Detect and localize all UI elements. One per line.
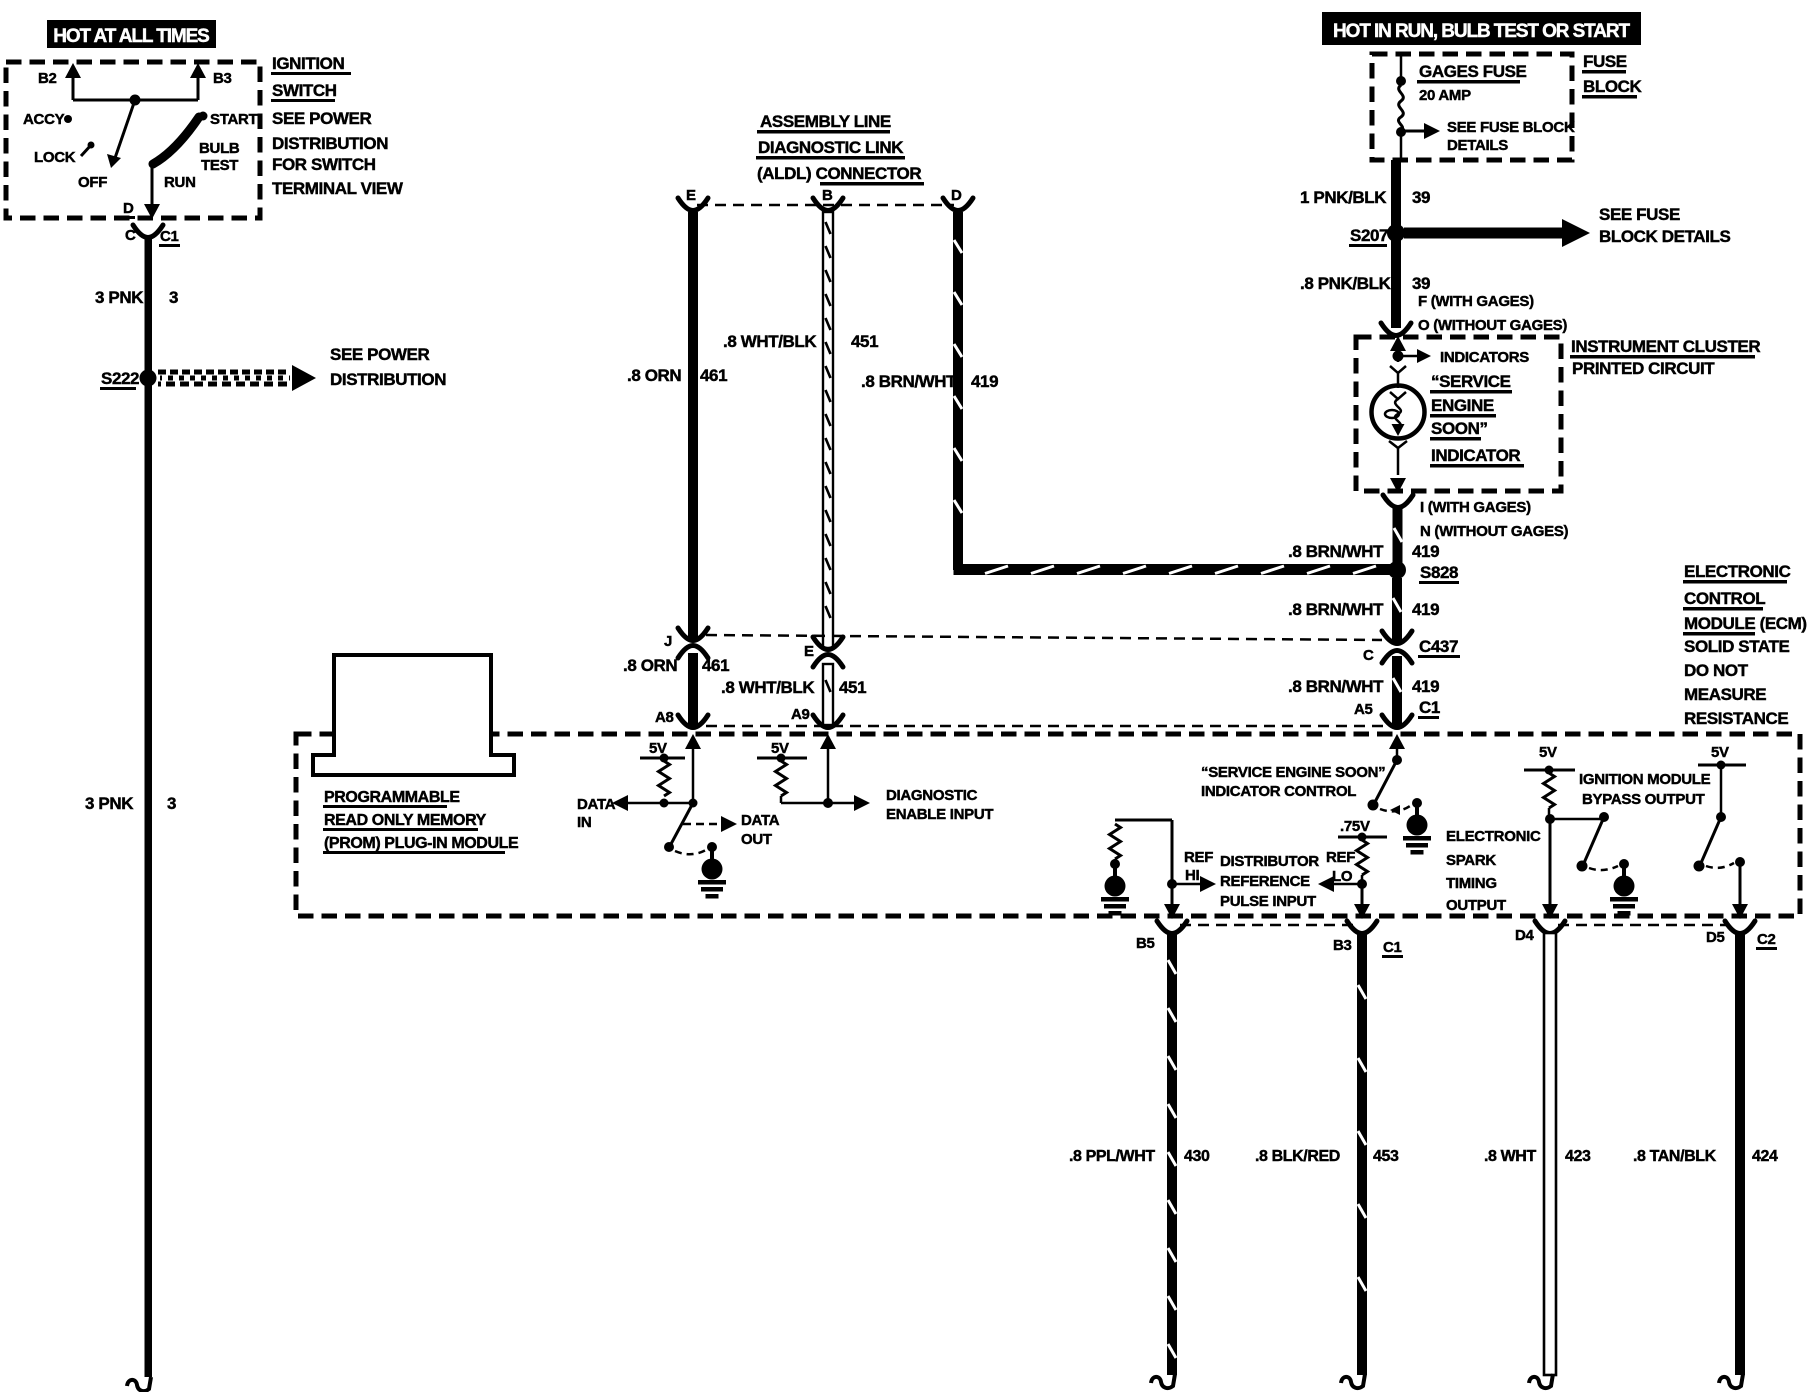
svg-text:S207: S207 xyxy=(1350,226,1388,245)
svg-text:MODULE (ECM): MODULE (ECM) xyxy=(1684,614,1807,633)
svg-text:PROGRAMMABLE: PROGRAMMABLE xyxy=(324,789,460,806)
svg-text:GAGES FUSE: GAGES FUSE xyxy=(1419,62,1527,81)
ECM annotation xyxy=(1683,562,1807,728)
resistor diagnostic pull-up xyxy=(776,761,787,796)
svg-text:5V: 5V xyxy=(1539,744,1557,761)
PROM module xyxy=(313,655,519,854)
svg-text:C1: C1 xyxy=(1383,939,1402,956)
svg-text:A9: A9 xyxy=(791,706,810,723)
wire .8 WHT/BLK 451 lower xyxy=(721,664,866,725)
splice S207 xyxy=(1349,205,1730,247)
svg-text:J: J xyxy=(664,633,672,650)
svg-text:PRINTED CIRCUIT: PRINTED CIRCUIT xyxy=(1572,359,1715,378)
5V supply (EST D4) xyxy=(1524,744,1575,775)
5V supply (bypass D5) xyxy=(1698,744,1746,770)
svg-text:1 PNK/BLK: 1 PNK/BLK xyxy=(1300,188,1387,207)
svg-text:419: 419 xyxy=(1412,677,1439,696)
svg-text:READ ONLY MEMORY: READ ONLY MEMORY xyxy=(324,812,487,829)
EST label xyxy=(1446,828,1541,914)
svg-text:.8 BRN/WHT: .8 BRN/WHT xyxy=(1288,600,1384,619)
svg-text:C437: C437 xyxy=(1419,637,1458,656)
svg-text:A8: A8 xyxy=(655,709,674,726)
wire .8 BRN/WHT 419 mid xyxy=(1288,578,1439,644)
connector E (C437) xyxy=(804,637,843,667)
svg-text:451: 451 xyxy=(839,678,866,697)
svg-text:ELECTRONIC: ELECTRONIC xyxy=(1684,562,1791,581)
fuse GAGES 20A xyxy=(1396,56,1406,160)
bypass switch xyxy=(1694,765,1746,872)
svg-text:.8 WHT: .8 WHT xyxy=(1484,1148,1536,1165)
svg-text:.75V: .75V xyxy=(1340,818,1370,835)
svg-text:453: 453 xyxy=(1373,1148,1399,1165)
svg-text:SOLID STATE: SOLID STATE xyxy=(1684,637,1790,656)
svg-text:OUT: OUT xyxy=(741,831,772,848)
svg-text:HI: HI xyxy=(1185,867,1200,884)
svg-text:20 AMP: 20 AMP xyxy=(1419,87,1471,104)
5V supply (diagnostic) xyxy=(757,740,807,763)
svg-text:INDICATORS: INDICATORS xyxy=(1440,349,1529,366)
svg-text:F (WITH GAGES): F (WITH GAGES) xyxy=(1418,293,1534,310)
svg-text:DETAILS: DETAILS xyxy=(1447,137,1508,154)
svg-text:OUTPUT: OUTPUT xyxy=(1446,897,1506,914)
svg-text:(PROM) PLUG-IN MODULE: (PROM) PLUG-IN MODULE xyxy=(324,835,519,852)
terminal B3 C1 xyxy=(1333,921,1403,958)
wire .8 PPL/WHT 430 xyxy=(1069,933,1210,1388)
ignition module bypass label xyxy=(1579,771,1711,808)
svg-text:461: 461 xyxy=(700,366,727,385)
svg-text:ACCY: ACCY xyxy=(23,111,65,128)
5V supply (data) xyxy=(640,740,685,763)
svg-text:.8 ORN: .8 ORN xyxy=(623,656,677,675)
ground (EST switch) xyxy=(1610,859,1638,916)
switch data out xyxy=(664,803,706,854)
svg-text:451: 451 xyxy=(851,332,878,351)
svg-text:ENGINE: ENGINE xyxy=(1431,396,1494,415)
svg-text:.8 BRN/WHT: .8 BRN/WHT xyxy=(1288,542,1384,561)
svg-text:3 PNK: 3 PNK xyxy=(85,794,134,813)
connector F/O instrument cluster xyxy=(1381,293,1567,336)
bulb SERVICE ENGINE SOON indicator xyxy=(1372,366,1425,493)
svg-text:B3: B3 xyxy=(1333,937,1352,954)
svg-text:B5: B5 xyxy=(1136,935,1155,952)
svg-text:“SERVICE ENGINE SOON”: “SERVICE ENGINE SOON” xyxy=(1201,764,1385,781)
svg-text:DISTRIBUTION: DISTRIBUTION xyxy=(272,134,388,153)
wire .8 BRN/WHT 419 lower xyxy=(1288,656,1439,725)
svg-text:DATA: DATA xyxy=(577,796,616,813)
A8 entry arrow xyxy=(685,734,701,803)
dashed connector line C1 (A8-A9-A5) xyxy=(706,725,1384,728)
svg-text:.8 PNK/BLK: .8 PNK/BLK xyxy=(1300,274,1392,293)
svg-text:E: E xyxy=(686,187,696,204)
svg-text:SPARK: SPARK xyxy=(1446,852,1496,869)
svg-text:B3: B3 xyxy=(213,70,232,87)
svg-text:DISTRIBUTOR: DISTRIBUTOR xyxy=(1220,853,1319,870)
ground (data switch) xyxy=(698,842,726,899)
svg-text:419: 419 xyxy=(1412,542,1439,561)
connector I/N xyxy=(1383,495,1569,540)
svg-text:IN: IN xyxy=(577,814,591,831)
data out arrow xyxy=(683,812,780,848)
svg-text:461: 461 xyxy=(702,656,729,675)
svg-text:FUSE: FUSE xyxy=(1583,52,1627,71)
svg-text:PULSE INPUT: PULSE INPUT xyxy=(1220,893,1316,910)
svg-text:.8 WHT/BLK: .8 WHT/BLK xyxy=(723,332,817,351)
svg-text:39: 39 xyxy=(1412,274,1430,293)
wire to B5 xyxy=(1164,820,1216,919)
connector J (C437) xyxy=(664,628,708,658)
svg-text:INSTRUMENT CLUSTER: INSTRUMENT CLUSTER xyxy=(1571,337,1760,356)
REF LO node xyxy=(1318,849,1370,919)
SES indicator control switch xyxy=(1368,760,1411,815)
svg-text:HOT IN RUN, BULB TEST OR START: HOT IN RUN, BULB TEST OR START xyxy=(1333,21,1630,42)
wire .8 ORN 461 lower xyxy=(623,653,729,725)
svg-text:D: D xyxy=(951,187,962,204)
splice S222 xyxy=(100,345,446,391)
svg-text:BULB: BULB xyxy=(199,140,240,157)
svg-text:SEE FUSE BLOCK: SEE FUSE BLOCK xyxy=(1447,119,1575,136)
ground (SES switch) xyxy=(1403,798,1431,855)
svg-text:START: START xyxy=(210,111,258,128)
instrument cluster box xyxy=(1356,337,1760,491)
svg-text:REF: REF xyxy=(1184,849,1213,866)
wire .8 BRN/WHT 419 (ALDL D to S828) xyxy=(861,212,1392,575)
connector A9 (ECM C1) xyxy=(791,706,843,728)
svg-text:DIAGNOSTIC LINK: DIAGNOSTIC LINK xyxy=(758,138,904,157)
svg-text:HOT AT ALL TIMES: HOT AT ALL TIMES xyxy=(53,26,209,47)
A9 entry arrow xyxy=(820,734,836,803)
SERVICE ENGINE SOON text xyxy=(1430,372,1524,468)
svg-text:419: 419 xyxy=(1412,600,1439,619)
svg-text:TEST: TEST xyxy=(201,157,238,174)
wire 3 PNK circuit 3 xyxy=(85,237,178,1391)
distributor reference label xyxy=(1220,853,1319,910)
connector C437 xyxy=(1363,631,1460,664)
svg-text:.8 BRN/WHT: .8 BRN/WHT xyxy=(861,372,957,391)
svg-text:C1: C1 xyxy=(1419,698,1440,717)
ignition switch annotation xyxy=(271,54,404,198)
svg-text:S828: S828 xyxy=(1420,563,1458,582)
svg-text:D4: D4 xyxy=(1515,927,1535,944)
wire .8 WHT/BLK 451 (ALDL B to ECM A9) xyxy=(723,212,878,648)
EST switch xyxy=(1545,808,1618,872)
fuse block box xyxy=(1372,54,1572,160)
svg-text:N (WITHOUT GAGES): N (WITHOUT GAGES) xyxy=(1420,523,1569,540)
svg-text:RUN: RUN xyxy=(164,174,196,191)
svg-text:ASSEMBLY LINE: ASSEMBLY LINE xyxy=(760,112,891,131)
terminal B5 xyxy=(1136,921,1187,952)
svg-text:“SERVICE: “SERVICE xyxy=(1431,372,1511,391)
svg-text:BYPASS OUTPUT: BYPASS OUTPUT xyxy=(1582,791,1705,808)
ground (REF HI) xyxy=(1101,859,1129,916)
svg-text:TIMING: TIMING xyxy=(1446,875,1497,892)
wire .8 BLK/RED 453 xyxy=(1255,933,1399,1388)
node diagnostic enable xyxy=(781,787,993,823)
svg-text:BLOCK: BLOCK xyxy=(1583,77,1643,96)
svg-text:REF: REF xyxy=(1326,849,1355,866)
svg-text:B2: B2 xyxy=(38,70,57,87)
SES control label xyxy=(1201,764,1385,800)
svg-text:ENABLE INPUT: ENABLE INPUT xyxy=(886,806,993,823)
svg-text:SOON”: SOON” xyxy=(1431,419,1488,438)
svg-text:3 PNK: 3 PNK xyxy=(95,288,144,307)
dashed connector line C1 bottom (B5-B3) xyxy=(1180,924,1356,927)
wire .8 TAN/BLK 424 xyxy=(1633,933,1778,1388)
connector A5 C1 xyxy=(1354,698,1440,728)
node data in xyxy=(577,795,698,831)
svg-text:FOR SWITCH: FOR SWITCH xyxy=(272,155,376,174)
svg-text:D5: D5 xyxy=(1706,929,1725,946)
svg-text:ELECTRONIC: ELECTRONIC xyxy=(1446,828,1541,845)
svg-text:DATA: DATA xyxy=(741,812,780,829)
svg-text:LOCK: LOCK xyxy=(34,149,76,166)
ALDL terminal E xyxy=(678,187,708,211)
A5 entry arrow xyxy=(1389,734,1405,765)
svg-text:I (WITH GAGES): I (WITH GAGES) xyxy=(1420,499,1531,516)
svg-text:DO NOT: DO NOT xyxy=(1684,661,1749,680)
svg-text:5V: 5V xyxy=(1711,744,1729,761)
splice S828 xyxy=(1388,561,1459,584)
fuse block details arrow xyxy=(1401,119,1575,154)
resistor data pull-up xyxy=(659,761,670,796)
svg-text:.8 ORN: .8 ORN xyxy=(627,366,681,385)
connector C1 ignition xyxy=(125,225,180,247)
FUSE BLOCK label xyxy=(1582,52,1643,99)
svg-text:RESISTANCE: RESISTANCE xyxy=(1684,709,1788,728)
resistor REF LO xyxy=(1357,840,1368,875)
svg-text:SEE POWER: SEE POWER xyxy=(272,109,371,128)
svg-text:423: 423 xyxy=(1565,1148,1591,1165)
header HOT IN RUN, BULB TEST OR START xyxy=(1322,12,1641,45)
wire to D5 xyxy=(1732,862,1748,919)
svg-text:.8 BLK/RED: .8 BLK/RED xyxy=(1255,1148,1340,1165)
REF HI resistor network xyxy=(1110,820,1173,872)
svg-text:B: B xyxy=(822,187,833,204)
wire .8 PNK/BLK 39 xyxy=(1300,240,1430,328)
svg-text:DISTRIBUTION: DISTRIBUTION xyxy=(330,370,446,389)
svg-text:C: C xyxy=(1363,647,1374,664)
svg-text:INDICATOR: INDICATOR xyxy=(1431,446,1520,465)
indicators arrow xyxy=(1390,336,1529,366)
header HOT AT ALL TIMES xyxy=(47,20,216,48)
svg-text:S222: S222 xyxy=(101,369,139,388)
dashed connector line C2 bottom (D4-D5) xyxy=(1558,924,1730,927)
ALDL terminal D xyxy=(943,187,973,211)
svg-text:3: 3 xyxy=(167,794,176,813)
terminal D5 C2 xyxy=(1706,921,1777,950)
svg-text:3: 3 xyxy=(169,288,178,307)
dashed line C437 (J-E-C) xyxy=(706,635,1382,640)
svg-text:D: D xyxy=(123,200,134,217)
ALDL connector title xyxy=(756,112,924,186)
svg-text:TERMINAL VIEW: TERMINAL VIEW xyxy=(272,179,404,198)
svg-text:.8 BRN/WHT: .8 BRN/WHT xyxy=(1288,677,1384,696)
resistor EST xyxy=(1544,773,1555,808)
wire .8 ORN 461 (ALDL E to ECM A8) xyxy=(627,212,727,639)
svg-text:39: 39 xyxy=(1412,188,1430,207)
wire 1 PNK/BLK 39 xyxy=(1300,160,1430,226)
ALDL dashed link line xyxy=(697,204,954,207)
svg-text:.8 PPL/WHT: .8 PPL/WHT xyxy=(1069,1148,1155,1165)
svg-text:C2: C2 xyxy=(1757,931,1776,948)
wire .8 WHT 423 xyxy=(1484,933,1591,1388)
svg-text:A5: A5 xyxy=(1354,701,1373,718)
svg-text:MEASURE: MEASURE xyxy=(1684,685,1766,704)
svg-text:IGNITION: IGNITION xyxy=(272,54,344,73)
ECM box xyxy=(296,734,1800,916)
svg-text:.8 TAN/BLK: .8 TAN/BLK xyxy=(1633,1148,1717,1165)
ALDL terminal B xyxy=(813,187,843,211)
wire .8 BRN/WHT 419 upper xyxy=(1288,507,1439,563)
svg-text:SWITCH: SWITCH xyxy=(272,81,337,100)
svg-text:BLOCK DETAILS: BLOCK DETAILS xyxy=(1599,227,1730,246)
svg-text:DIAGNOSTIC: DIAGNOSTIC xyxy=(886,787,978,804)
svg-text:LO: LO xyxy=(1332,868,1353,885)
svg-text:(ALDL) CONNECTOR: (ALDL) CONNECTOR xyxy=(757,164,921,183)
svg-text:SEE FUSE: SEE FUSE xyxy=(1599,205,1680,224)
svg-text:O (WITHOUT GAGES): O (WITHOUT GAGES) xyxy=(1418,317,1567,334)
terminal D4 xyxy=(1515,921,1565,944)
svg-text:REFERENCE: REFERENCE xyxy=(1220,873,1310,890)
svg-text:SEE POWER: SEE POWER xyxy=(330,345,429,364)
svg-text:430: 430 xyxy=(1184,1148,1210,1165)
connector A8 (ECM C1) xyxy=(655,709,708,728)
svg-text:419: 419 xyxy=(971,372,998,391)
svg-text:CONTROL: CONTROL xyxy=(1684,589,1765,608)
svg-text:.8 WHT/BLK: .8 WHT/BLK xyxy=(721,678,815,697)
.75V supply REF LO xyxy=(1338,818,1387,842)
ignition switch xyxy=(6,62,260,219)
svg-text:OFF: OFF xyxy=(78,174,107,191)
svg-text:IGNITION MODULE: IGNITION MODULE xyxy=(1579,771,1711,788)
svg-text:E: E xyxy=(804,643,814,660)
wire to D4 xyxy=(1542,819,1558,919)
svg-text:INDICATOR CONTROL: INDICATOR CONTROL xyxy=(1201,783,1356,800)
svg-text:424: 424 xyxy=(1752,1148,1778,1165)
svg-text:C1: C1 xyxy=(160,228,179,245)
